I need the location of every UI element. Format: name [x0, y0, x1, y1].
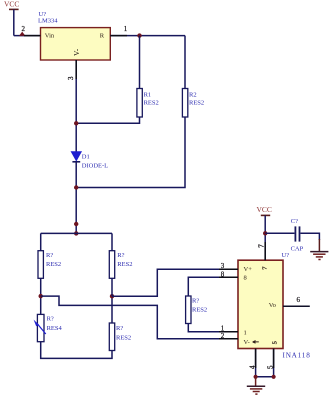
ground (top right): [310, 252, 328, 260]
pin stub U2 pin7: [264, 242, 266, 260]
pin stub U2 pin3: [219, 268, 238, 270]
wire bridge bottom: [41, 342, 112, 359]
node junction bridge left: [39, 294, 43, 298]
svg-text:R?: R?: [116, 325, 123, 332]
resistor R2 RES2: [182, 89, 204, 118]
svg-text:R?: R?: [47, 315, 54, 322]
wire RG to U2 pin 1: [188, 324, 238, 332]
svg-text:RES2: RES2: [117, 261, 132, 268]
wire upper right resistor to bridge top: [111, 233, 113, 250]
svg-text:R1: R1: [144, 91, 152, 98]
wire U1 pin 1: [110, 35, 185, 37]
wire bridge left upper leg: [40, 233, 42, 250]
svg-text:RES2: RES2: [116, 335, 131, 342]
svg-text:5: 5: [272, 341, 279, 344]
svg-text:RES2: RES2: [192, 307, 207, 314]
pin stub U2 pin2: [219, 338, 238, 340]
svg-text:R?: R?: [192, 297, 199, 304]
pin 2 marker triangle: [19, 32, 25, 36]
resistor R? RES2 (lower right): [109, 323, 131, 351]
node junction upper: [74, 222, 78, 226]
pin stub U2 pin8: [219, 276, 238, 278]
node junction R2: [74, 185, 78, 189]
wire lower right resistor to right mid node: [111, 296, 113, 323]
svg-text:R2: R2: [189, 91, 197, 98]
node junction pin5: [272, 375, 276, 379]
node junction bridge top: [74, 231, 78, 235]
pin stub U2 pin1: [219, 331, 238, 333]
svg-text:C?: C?: [291, 218, 298, 225]
wire R1 bottom to node: [76, 117, 139, 123]
svg-text:VCC: VCC: [257, 205, 272, 214]
wire to ground stem: [255, 377, 257, 386]
pin stub U1 pin1: [110, 35, 127, 37]
wire U2 pin 6 output: [283, 305, 310, 307]
resistor R? RES2 (upper left): [38, 251, 61, 279]
wire capacitor to ground: [301, 233, 320, 240]
resistor R1 RES2: [137, 89, 159, 118]
wire left node to U2 pin 2: [41, 296, 238, 339]
svg-text:R?: R?: [46, 252, 53, 259]
power VCC (right): [257, 205, 272, 233]
svg-text:CAP: CAP: [291, 245, 304, 252]
wire R2 bottom to node: [76, 117, 185, 188]
capacitor C? CAP: [291, 218, 304, 253]
diode D1 DIODE-L: [71, 152, 108, 170]
svg-text:DIODE-L: DIODE-L: [82, 163, 108, 170]
svg-text:2: 2: [22, 25, 26, 33]
pin stub U2 pin5: [273, 349, 275, 369]
node junction pin1/R1: [137, 33, 141, 37]
node junction pin7/cap: [263, 231, 267, 235]
node junction R1: [74, 121, 78, 125]
wire VCC to U1 pin 2: [14, 35, 41, 37]
svg-text:U?: U?: [282, 252, 290, 259]
wire to capacitor: [265, 232, 294, 234]
svg-text:6: 6: [297, 296, 301, 304]
svg-text:RES2: RES2: [144, 99, 159, 106]
wire junction to R1: [139, 36, 141, 89]
svg-text:8: 8: [244, 275, 247, 282]
node junction bridge right: [110, 294, 114, 298]
wire U2 pin 7 top: [264, 233, 266, 260]
op-amp U? INA118: [238, 252, 311, 359]
svg-text:V+: V+: [244, 266, 253, 273]
ground (bottom): [247, 386, 265, 394]
svg-text:Vin: Vin: [45, 32, 55, 39]
wire pin1 to R2: [184, 36, 186, 89]
svg-text:V-: V-: [72, 48, 81, 56]
wire U2 pin 4 down: [255, 349, 257, 377]
svg-text:3: 3: [67, 76, 75, 80]
wire upper right resistor to right node: [111, 278, 113, 296]
svg-text:7: 7: [257, 244, 265, 248]
wire U2 pin 5 down: [273, 349, 275, 377]
svg-text:1: 1: [124, 25, 128, 33]
wire U2 pin 8 to RG resistor: [188, 277, 238, 296]
pin stub U1 pin2: [24, 35, 41, 37]
pin stub U2 pin4: [255, 349, 257, 369]
svg-text:RES2: RES2: [189, 99, 204, 106]
svg-text:VCC: VCC: [4, 0, 19, 8]
svg-text:RES2: RES2: [46, 261, 61, 268]
svg-text:1: 1: [244, 329, 247, 336]
wire bridge top: [41, 232, 112, 234]
node junction pin4: [254, 375, 258, 379]
wire to left mid node: [40, 278, 42, 314]
wire diode to bridge top: [75, 162, 77, 234]
svg-text:RES4: RES4: [47, 325, 63, 332]
power VCC (left): [4, 0, 19, 36]
wire U1 pin 3 down: [75, 60, 77, 152]
svg-text:R: R: [100, 32, 105, 39]
svg-text:LM334: LM334: [38, 17, 58, 24]
resistor R? RES4 (potentiometer): [34, 314, 63, 341]
svg-text:R?: R?: [117, 252, 124, 259]
svg-text:V-: V-: [244, 339, 250, 346]
resistor R? RES2 (upper right): [109, 251, 132, 279]
op-amp U? LM334: [38, 11, 110, 60]
svg-text:Vo: Vo: [269, 302, 276, 309]
wire right node to U2 pin 3: [112, 269, 238, 296]
svg-text:D1: D1: [82, 153, 90, 160]
wire joining pins 4 and 5: [256, 376, 274, 378]
pin stub U1 pin3: [75, 60, 77, 79]
resistor R? RES2 (gain RG): [186, 296, 208, 324]
svg-text:INA118: INA118: [283, 351, 311, 359]
